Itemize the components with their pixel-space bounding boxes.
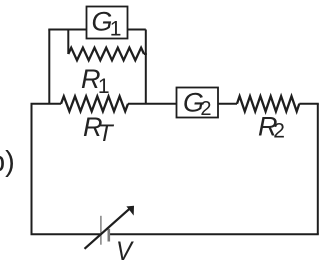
wire: main horizontal between RT and G2 bbox=[128, 103, 177, 105]
variable-source arrow bbox=[85, 208, 131, 249]
svg-text:1: 1 bbox=[98, 75, 110, 98]
wire: bottom right segment bbox=[110, 233, 319, 235]
wire: right vertical of outer loop bbox=[317, 104, 319, 234]
galvanometer G2 box bbox=[177, 88, 219, 118]
wire: left vertical of outer loop bbox=[31, 104, 33, 234]
wire: main horizontal left segment bbox=[31, 103, 62, 105]
wire: bottom left segment bbox=[31, 233, 101, 235]
resistor RT bbox=[61, 96, 128, 111]
wire: R1 branch left drop bbox=[67, 29, 69, 55]
svg-text:V: V bbox=[116, 236, 135, 264]
resistor R2 bbox=[237, 96, 299, 111]
svg-text:1: 1 bbox=[110, 17, 122, 40]
svg-text:2: 2 bbox=[273, 120, 285, 143]
wire: right vertical of parallel branch (node B) bbox=[145, 30, 147, 104]
arrowhead bbox=[126, 206, 134, 216]
svg-text:T: T bbox=[98, 120, 115, 147]
svg-text:b): b) bbox=[0, 146, 15, 178]
battery long plate bbox=[100, 216, 102, 245]
wire: main horizontal between G2 and R2 bbox=[218, 103, 237, 105]
battery short plate bbox=[108, 229, 111, 242]
wire: top wire right of G1 bbox=[128, 29, 146, 31]
wire: R1 right stub to node B vertical bbox=[144, 53, 147, 55]
wire: main horizontal right of R2 bbox=[299, 103, 319, 105]
resistor R1 bbox=[68, 48, 144, 61]
svg-text:2: 2 bbox=[200, 98, 211, 120]
wire: top wire left of G1 bbox=[48, 29, 86, 31]
wire: left vertical of parallel branch (node A) bbox=[48, 30, 50, 104]
galvanometer G1 box bbox=[87, 7, 128, 39]
